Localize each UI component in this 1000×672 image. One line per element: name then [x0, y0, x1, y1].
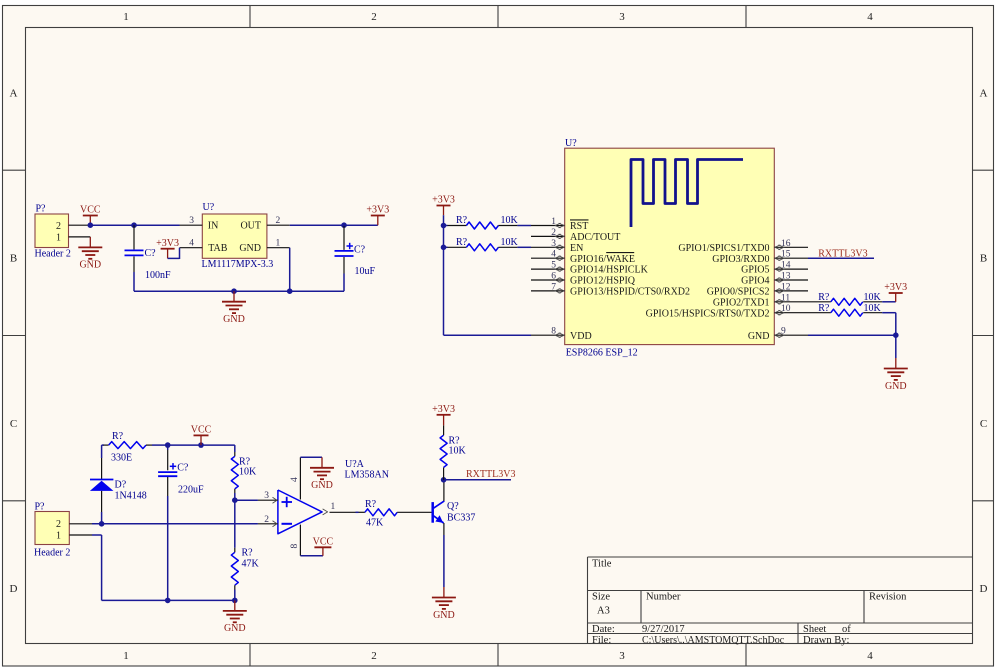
- svg-text:GPIO5: GPIO5: [741, 265, 769, 276]
- svg-text:U?A: U?A: [345, 459, 365, 470]
- svg-text:File:: File:: [592, 635, 611, 646]
- svg-text:Header 2: Header 2: [35, 248, 71, 259]
- svg-text:+3V3: +3V3: [366, 205, 389, 216]
- svg-text:1: 1: [551, 217, 556, 227]
- svg-text:P?: P?: [36, 204, 47, 215]
- svg-text:Title: Title: [592, 559, 612, 570]
- svg-text:8: 8: [551, 327, 556, 337]
- svg-text:Q?: Q?: [447, 501, 459, 512]
- svg-text:3: 3: [619, 650, 625, 662]
- svg-text:GPIO13/HSPID/CTS0/RXD2: GPIO13/HSPID/CTS0/RXD2: [570, 287, 690, 298]
- svg-text:1: 1: [276, 238, 281, 248]
- svg-text:2: 2: [276, 216, 281, 226]
- svg-text:GND: GND: [311, 480, 333, 491]
- svg-text:330E: 330E: [111, 453, 132, 464]
- svg-text:4: 4: [290, 477, 300, 482]
- svg-text:R?: R?: [112, 431, 124, 442]
- svg-text:1: 1: [56, 233, 61, 244]
- svg-text:2: 2: [371, 650, 377, 662]
- svg-text:3: 3: [551, 239, 556, 249]
- svg-text:16: 16: [781, 239, 791, 249]
- svg-text:VCC: VCC: [313, 537, 334, 548]
- svg-text:R?: R?: [818, 303, 830, 314]
- svg-text:8: 8: [290, 544, 300, 549]
- svg-text:1: 1: [56, 530, 61, 541]
- svg-text:GPIO15/HSPICS/RTS0/TXD2: GPIO15/HSPICS/RTS0/TXD2: [646, 308, 770, 319]
- svg-text:OUT: OUT: [240, 221, 261, 232]
- svg-text:10K: 10K: [239, 467, 257, 478]
- svg-text:R?: R?: [365, 499, 377, 510]
- svg-text:GND: GND: [433, 610, 455, 621]
- svg-text:C: C: [980, 418, 987, 430]
- svg-text:220uF: 220uF: [178, 485, 204, 496]
- svg-text:A: A: [10, 88, 18, 100]
- svg-text:VCC: VCC: [191, 425, 212, 436]
- svg-text:10: 10: [781, 304, 791, 314]
- svg-text:LM358AN: LM358AN: [345, 470, 389, 481]
- svg-text:GPIO16/WAKE: GPIO16/WAKE: [570, 254, 635, 265]
- svg-text:10K: 10K: [501, 215, 519, 226]
- svg-text:+3V3: +3V3: [432, 404, 455, 415]
- svg-text:2: 2: [264, 515, 269, 525]
- svg-text:2: 2: [551, 228, 556, 238]
- svg-text:IN: IN: [208, 221, 219, 232]
- svg-text:1N4148: 1N4148: [115, 490, 147, 501]
- svg-text:C?: C?: [145, 248, 157, 259]
- svg-text:D: D: [10, 583, 18, 595]
- svg-text:GND: GND: [748, 331, 770, 342]
- svg-text:9: 9: [781, 327, 786, 337]
- svg-text:R?: R?: [456, 215, 468, 226]
- svg-text:3: 3: [619, 11, 625, 23]
- svg-text:RXTTL3V3: RXTTL3V3: [818, 248, 867, 259]
- svg-text:P?: P?: [35, 501, 46, 512]
- svg-text:2: 2: [56, 221, 61, 232]
- svg-text:ADC/TOUT: ADC/TOUT: [570, 232, 620, 243]
- svg-text:4: 4: [867, 650, 873, 662]
- svg-text:GPIO4: GPIO4: [741, 276, 769, 287]
- svg-text:GPIO2/TXD1: GPIO2/TXD1: [713, 297, 770, 308]
- svg-text:2: 2: [56, 519, 61, 530]
- svg-text:47K: 47K: [242, 559, 260, 570]
- svg-text:R?: R?: [242, 548, 254, 559]
- svg-text:10K: 10K: [449, 446, 467, 457]
- svg-text:15: 15: [781, 250, 791, 260]
- svg-text:GPIO12/HSPIQ: GPIO12/HSPIQ: [570, 276, 636, 287]
- svg-text:VCC: VCC: [80, 205, 101, 216]
- svg-text:R?: R?: [449, 435, 461, 446]
- svg-text:Sheet: Sheet: [803, 624, 826, 635]
- svg-text:Drawn By:: Drawn By:: [803, 635, 849, 646]
- svg-text:C?: C?: [354, 245, 366, 256]
- svg-text:U?: U?: [203, 202, 215, 213]
- svg-text:GPIO0/SPICS2: GPIO0/SPICS2: [707, 287, 770, 298]
- svg-text:+3V3: +3V3: [432, 195, 455, 206]
- svg-text:47K: 47K: [366, 518, 384, 529]
- svg-text:4: 4: [551, 250, 556, 260]
- svg-text:ESP8266 ESP_12: ESP8266 ESP_12: [566, 347, 638, 358]
- svg-text:A: A: [980, 88, 988, 100]
- svg-text:GND: GND: [224, 623, 246, 634]
- svg-text:TAB: TAB: [208, 243, 228, 254]
- svg-text:1: 1: [123, 650, 129, 662]
- svg-text:+3V3: +3V3: [156, 238, 179, 249]
- svg-text:Date:: Date:: [592, 624, 615, 635]
- svg-text:Revision: Revision: [869, 592, 907, 603]
- svg-text:GND: GND: [239, 243, 261, 254]
- svg-text:+3V3: +3V3: [884, 282, 907, 293]
- svg-text:1: 1: [123, 11, 129, 23]
- svg-text:C?: C?: [177, 462, 189, 473]
- svg-text:GND: GND: [223, 314, 245, 325]
- svg-text:3: 3: [264, 491, 269, 501]
- svg-text:GND: GND: [79, 260, 101, 271]
- svg-text:5: 5: [551, 261, 556, 271]
- svg-text:C: C: [10, 418, 17, 430]
- svg-text:GPIO3/RXD0: GPIO3/RXD0: [712, 254, 769, 265]
- svg-text:R?: R?: [818, 292, 830, 303]
- svg-text:LM1117MPX-3.3: LM1117MPX-3.3: [202, 259, 274, 270]
- svg-text:12: 12: [781, 282, 791, 292]
- svg-text:14: 14: [781, 261, 791, 271]
- svg-text:GPIO14/HSPICLK: GPIO14/HSPICLK: [570, 265, 649, 276]
- svg-text:4: 4: [189, 238, 194, 248]
- svg-text:D: D: [980, 583, 988, 595]
- svg-text:A3: A3: [597, 606, 610, 617]
- svg-text:B: B: [10, 253, 17, 265]
- svg-text:10K: 10K: [864, 303, 882, 314]
- svg-text:GND: GND: [885, 381, 907, 392]
- svg-text:EN: EN: [570, 243, 583, 254]
- svg-text:10K: 10K: [501, 237, 519, 248]
- svg-text:D?: D?: [115, 480, 127, 491]
- svg-text:RXTTL3V3: RXTTL3V3: [466, 469, 515, 480]
- svg-text:13: 13: [781, 272, 791, 282]
- svg-text:of: of: [842, 624, 851, 635]
- svg-text:R?: R?: [456, 237, 468, 248]
- svg-text:6: 6: [551, 272, 556, 282]
- svg-text:Header 2: Header 2: [34, 548, 70, 559]
- svg-text:10uF: 10uF: [355, 266, 376, 277]
- svg-text:3: 3: [189, 216, 194, 226]
- svg-text:Number: Number: [646, 592, 681, 603]
- svg-text:11: 11: [781, 293, 790, 303]
- svg-text:BC337: BC337: [447, 512, 475, 523]
- svg-text:10K: 10K: [864, 292, 882, 303]
- svg-text:RST: RST: [570, 221, 588, 232]
- svg-text:GPIO1/SPICS1/TXD0: GPIO1/SPICS1/TXD0: [678, 243, 769, 254]
- svg-text:1: 1: [331, 502, 336, 512]
- svg-text:Size: Size: [592, 592, 610, 603]
- svg-text:9/27/2017: 9/27/2017: [642, 624, 685, 635]
- svg-text:VDD: VDD: [570, 331, 592, 342]
- svg-text:100nF: 100nF: [145, 270, 171, 281]
- svg-text:B: B: [980, 253, 987, 265]
- svg-text:2: 2: [371, 11, 377, 23]
- svg-text:U?: U?: [565, 138, 577, 149]
- svg-text:4: 4: [867, 11, 873, 23]
- svg-text:7: 7: [551, 282, 556, 292]
- svg-text:C:\Users\..\AMSTOMQTT.SchDoc: C:\Users\..\AMSTOMQTT.SchDoc: [642, 635, 785, 646]
